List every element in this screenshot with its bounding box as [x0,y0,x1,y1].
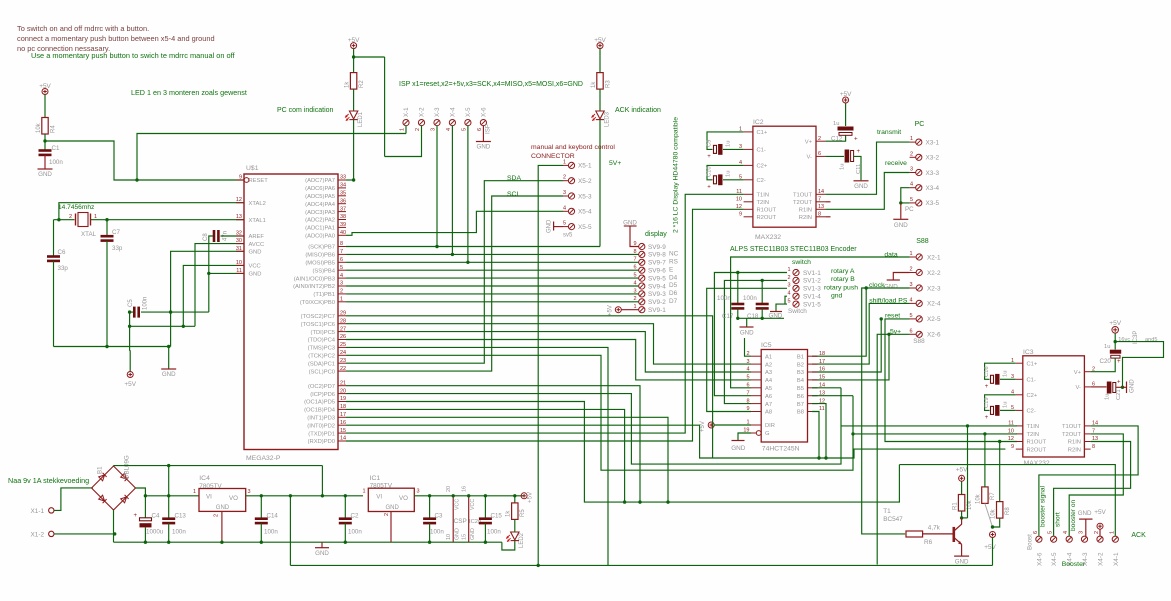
svg-text:GND: GND [731,445,746,452]
supply +5V (R7/R8) [990,532,996,538]
svg-text:+5V: +5V [1109,320,1122,327]
svg-text:GND: GND [854,183,868,190]
svg-text:2: 2 [415,128,421,131]
svg-text:X-1: X-1 [403,107,410,117]
junction XTAL1/C7 [105,218,108,221]
supply +5V (C12) [843,97,849,103]
capacitor C1 [39,151,52,155]
wire GND11 [209,272,244,274]
svg-text:39: 39 [340,222,346,228]
wire shift X2-4 to B2 [812,303,910,364]
pad SV1-4 [793,293,799,299]
svg-text:X4-6: X4-6 [1036,552,1043,566]
svg-text:X-3: X-3 [434,107,441,117]
junction GND11/C8 [207,272,210,275]
junction RESET branch [135,178,138,181]
IC IC3 MAX232 box [1023,356,1085,457]
pin 38 (ADC2)PA2 [338,219,346,221]
wire X4-6 booster signal [1039,426,1138,536]
svg-text:SV1-4: SV1-4 [803,294,821,301]
pin 16 (INT0)PD2 [338,424,346,426]
svg-text:12: 12 [236,197,242,203]
pin 4 (AIN1/OC0)PB3 [338,277,346,279]
capacitor C11 [825,155,844,157]
wire R8 bottom [993,518,1000,527]
svg-text:VO: VO [229,495,238,502]
IC2 pin 12 R1OUT [744,208,753,210]
svg-text:ACK: ACK [1131,532,1146,539]
wire +5v ISP riser [384,57,386,157]
pin 20 (ICP)PD6 [338,393,346,395]
svg-text:Switch: Switch [788,308,807,315]
svg-text:2: 2 [214,514,220,517]
svg-text:9: 9 [1011,444,1014,450]
IC3 pin 6 V- [1084,386,1090,388]
capacitor C7 [101,236,114,240]
IC2 pin 1 C1+ [744,131,753,133]
svg-text:6: 6 [1033,531,1039,534]
svg-text:38: 38 [340,214,346,220]
pad X2-4 [916,300,922,306]
svg-text:1u: 1u [1105,394,1111,400]
svg-text:GND: GND [955,558,969,565]
svg-text:ICSP: ICSP [452,518,467,525]
svg-text:C3: C3 [435,513,443,520]
svg-text:11: 11 [236,268,242,274]
svg-text:SV9-4: SV9-4 [648,283,666,290]
pad X1-1 [49,508,54,513]
svg-text:6: 6 [477,128,483,131]
svg-text:GND: GND [894,222,908,229]
svg-text:B3: B3 [797,370,804,376]
svg-text:V-: V- [1076,385,1082,391]
pad X5-5 [568,224,574,230]
svg-text:1u: 1u [840,164,846,170]
svg-text:X3-2: X3-2 [926,155,940,162]
wire AREF to C8 [221,235,245,237]
svg-text:R1OUT: R1OUT [757,208,777,214]
svg-text:14.7456mhz: 14.7456mhz [58,204,94,211]
svg-text:1u: 1u [726,171,732,177]
svg-text:connect a momentary push butto: connect a momentary push button between … [17,34,215,43]
capacitor C4 [144,496,146,518]
svg-text:+: + [133,513,137,519]
svg-text:15: 15 [340,428,346,434]
wire T2OUT stub [825,201,830,203]
svg-text:3: 3 [910,167,913,173]
svg-text:manual and keybord control: manual and keybord control [531,144,615,151]
wire IC1 GND [390,512,392,543]
svg-text:V+: V+ [1074,370,1082,376]
supply +5V (C20) [1112,327,1119,334]
pin 22 (SCL)PC0 [338,370,346,372]
svg-text:1: 1 [910,136,913,142]
svg-text:(TOSC1)PC6: (TOSC1)PC6 [301,322,335,328]
svg-text:B1: B1 [97,466,104,474]
svg-text:8: 8 [746,398,749,404]
wire PC3 net [346,347,608,565]
svg-text:A5: A5 [765,386,772,392]
svg-text:2: 2 [746,351,749,357]
ground (X-6) [482,125,484,141]
svg-text:VI: VI [376,494,382,501]
capacitor C17 [737,273,739,304]
pad X3-2 [916,154,922,160]
pad X-3 [434,120,440,126]
pad X2-6 [916,331,922,337]
svg-text:(AIN1/OC0)PB3: (AIN1/OC0)PB3 [294,276,335,282]
wire LED3 to PB7 (ACK) [599,120,601,247]
svg-text:SV1-1: SV1-1 [803,270,821,277]
svg-text:X5-1: X5-1 [578,163,592,170]
IC2 pin 4 C2+ [744,164,753,166]
wire VO rail [246,495,363,497]
svg-text:GND: GND [315,550,329,557]
svg-text:17: 17 [819,359,825,365]
svg-text:7805TV: 7805TV [370,483,393,490]
svg-text:5V+: 5V+ [609,160,621,167]
svg-text:(INT0)PD2: (INT0)PD2 [307,423,335,429]
svg-text:40: 40 [340,230,346,236]
svg-text:LED3: LED3 [604,111,610,127]
wire to GND symbol [168,347,170,369]
svg-text:+: + [707,185,711,191]
svg-text:31: 31 [236,246,242,252]
svg-text:X2-1: X2-1 [927,254,941,261]
svg-text:C1-: C1- [757,148,766,154]
svg-text:GND: GND [455,528,461,540]
svg-text:(ADC5)PA5: (ADC5)PA5 [305,194,335,200]
svg-text:1u: 1u [1104,344,1110,350]
supply +5V (R3) [597,43,603,49]
svg-text:(ADC2)PA2: (ADC2)PA2 [305,218,335,224]
ground (C21) rotated [1123,386,1127,388]
wire SV1-2 to A7 [724,280,787,403]
wire X-5 MOSI [467,125,469,262]
svg-text:B8: B8 [797,410,804,416]
svg-text:MAX232: MAX232 [1024,460,1050,467]
svg-text:6: 6 [818,151,821,157]
pin 34 (ADC6)PA6 [338,187,346,189]
pad X2-1 [916,254,922,260]
svg-text:20: 20 [446,486,452,492]
IC5 pin 4 A3 [751,371,761,373]
svg-text:100n: 100n [717,295,731,302]
svg-text:5: 5 [910,197,913,203]
svg-text:C16: C16 [984,366,990,377]
svg-text:5: 5 [787,299,790,305]
capacitor C2 [344,496,346,518]
pad SV9-6 [639,267,645,273]
svg-text:B6: B6 [797,394,804,400]
svg-text:4: 4 [446,128,452,131]
capacitor C18 [761,280,763,303]
svg-text:DBL09G: DBL09G [124,455,131,479]
svg-text:3: 3 [417,489,420,495]
svg-text:4: 4 [563,205,566,211]
svg-text:4: 4 [787,291,790,297]
svg-text:14: 14 [340,436,346,442]
wire B3 up to reset [812,319,881,372]
svg-text:C1-: C1- [1027,378,1036,384]
junction collector [960,516,963,519]
svg-text:R1OUT: R1OUT [1027,440,1047,446]
svg-text:C15: C15 [491,513,503,520]
svg-text:5: 5 [1048,531,1054,534]
IC IC4 7805STV box [199,489,246,512]
svg-text:2 *16 LC Display HD44780 compa: 2 *16 LC Display HD44780 compatible [673,117,680,233]
wire X5-4 button [346,211,563,235]
IC2 pin 11 T1IN [744,193,753,195]
pin 18 (OC1B)PD4 [338,408,346,410]
pin 7 (MISO)PB6 [338,253,346,255]
wire PC7 net [346,316,713,458]
LED LED1 [349,111,357,120]
svg-text:35: 35 [340,191,346,197]
svg-text:15: 15 [819,375,825,381]
IC2 pin 10 T2IN [744,201,753,203]
svg-text:X1-2: X1-2 [31,532,45,539]
svg-text:GND: GND [1129,379,1136,393]
wire +5V to bus [992,538,994,566]
svg-text:X-2: X-2 [419,107,426,117]
IC2 pin 5 C2- [744,179,753,181]
svg-text:R6: R6 [924,539,933,546]
svg-text:B2: B2 [797,362,804,368]
svg-text:18: 18 [819,351,825,357]
svg-text:D7: D7 [669,298,678,305]
resistor R2 [350,73,356,90]
svg-text:X1-1: X1-1 [31,508,45,515]
svg-text:VO: VO [399,495,408,502]
svg-text:T2OUT: T2OUT [793,200,812,206]
wire R2 to LED1 [353,89,355,111]
MCU U$1 MEGA32-P box [244,174,338,450]
pin 39 (ADC1)PA1 [338,226,346,228]
wire data X2-1 to A5 [731,257,910,388]
IC3 pin 9 R2OUT [1016,448,1023,450]
svg-text:(AIN0/INT2)PB2: (AIN0/INT2)PB2 [293,284,335,290]
svg-text:4: 4 [910,182,913,188]
wire IC1 VO rail [414,495,524,497]
svg-text:12: 12 [1008,436,1014,442]
svg-text:22: 22 [340,366,346,372]
wire PB2 to SV9-4 [346,285,639,287]
svg-text:VCC: VCC [455,499,461,510]
capacitor C10 [707,165,744,179]
svg-text:X-4: X-4 [449,107,456,117]
+5V bus short [129,351,132,372]
pin 15 (TXD)PD1 [338,432,346,434]
pin 25 (TMS)PC3 [338,346,346,348]
svg-text:2: 2 [340,289,343,295]
pad X5-4 [568,208,574,214]
svg-text:+: + [854,136,858,143]
wire C7 branch [106,220,108,236]
svg-text:1: 1 [340,297,343,303]
IC5 pin 9 A8 [751,411,761,413]
pin 11 GND [236,272,244,274]
gnd bus power area [114,541,502,543]
svg-text:T1: T1 [883,508,891,515]
svg-text:37: 37 [340,206,346,212]
pad X3-5 [916,200,922,206]
pin 19 (OC1A)PD5 [338,401,346,403]
IC3 pin 7 T2OUT [1084,433,1090,435]
svg-text:30: 30 [236,238,242,244]
svg-text:+5V: +5V [840,91,852,98]
IC5 pin 13 B6 [808,395,818,397]
svg-text:B4: B4 [797,378,805,384]
pad SV1-2 [793,277,799,283]
pad X5-3 [568,193,574,199]
pin 26 (TDO)PC4 [338,339,346,341]
svg-text:SV9-2: SV9-2 [648,299,666,306]
svg-text:36: 36 [340,198,346,204]
pin 5 (SS)PB4 [338,269,346,271]
wire X-2 +5v net [385,125,422,156]
IC5 pin 11 B8 [808,411,818,413]
pad X2-5 [916,316,922,322]
IC2 pin 13 R1IN [816,208,825,210]
svg-text:6: 6 [340,257,343,263]
svg-text:C1+: C1+ [1027,361,1038,367]
IC3 pin 14 T1OUT [1084,425,1090,427]
svg-text:(TDO)PC4: (TDO)PC4 [308,338,336,344]
wire R5 to LED2 [514,519,516,532]
svg-text:(ADC3)PA3: (ADC3)PA3 [305,210,335,216]
svg-text:A4: A4 [765,378,773,384]
wire PC4 to A4 [346,340,751,380]
svg-text:NC: NC [669,251,679,258]
svg-text:74HCT245N: 74HCT245N [762,446,800,453]
svg-text:transmit: transmit [877,129,901,136]
pad X-1 [403,120,409,126]
svg-text:16: 16 [340,420,346,426]
wire +9 bus drop [321,466,323,496]
wire RESET net [45,141,244,180]
svg-text:33p: 33p [112,245,123,252]
svg-text:(T0/XCK)PB0: (T0/XCK)PB0 [300,300,335,306]
LED LED2 [511,532,519,541]
svg-text:VCC: VCC [470,499,476,510]
pad X3-4 [916,185,922,191]
wire R7 top to T2IN [984,434,986,487]
svg-text:3: 3 [563,190,566,196]
svg-text:15: 15 [462,534,468,540]
wire PB1 to SV9-3 [346,293,639,295]
svg-text:B7: B7 [797,402,804,408]
svg-text:D4: D4 [669,274,678,281]
wire R4 to C1 [44,134,46,150]
svg-text:GND: GND [477,144,491,151]
svg-text:A7: A7 [765,402,772,408]
pin 13 XTAL1 [236,219,244,221]
svg-text:7: 7 [340,249,343,255]
svg-text:X2-6: X2-6 [927,332,941,339]
wire GND to IC5 A1 [745,338,752,356]
svg-text:2: 2 [563,175,566,181]
wire PC2 net [346,355,853,470]
svg-text:(SCL)PC0: (SCL)PC0 [309,369,335,375]
svg-text:E: E [669,266,673,273]
wire B4 up to 5v+ [812,334,889,380]
wire X-3 SCK [436,125,438,246]
wire h312 net [141,311,209,313]
svg-text:IC5: IC5 [761,342,772,349]
svg-text:T1OUT: T1OUT [1062,424,1081,430]
svg-text:rotary B: rotary B [831,276,855,283]
wire PB7 ACK row [346,246,600,248]
svg-text:V-: V- [807,155,813,161]
pin 6 (MOSI)PB5 [338,261,346,263]
connector ICSP pin VCC/GND 1 [452,496,454,542]
IC3 pin 13 R1IN [1084,441,1090,443]
IC3 pin 4 C2+ [1016,394,1023,396]
svg-text:C13: C13 [175,513,187,520]
wire X5-1 +5V [538,165,563,565]
supply +5V (SV9-1) [615,307,621,313]
crystal XTAL [78,213,88,227]
svg-text:1k: 1k [591,81,597,88]
wire PD3 net [346,417,668,502]
pin 8 (SCK)PB7 [338,246,346,248]
svg-text:R1IN: R1IN [1068,440,1081,446]
svg-text:28: 28 [340,318,346,324]
capacitor C9 [707,132,744,150]
svg-text:8: 8 [1092,444,1095,450]
wire X3-4/X3-5 gnd [901,188,910,203]
svg-text:1: 1 [1109,531,1115,534]
wire PD4 net [346,409,625,502]
svg-text:29: 29 [340,311,346,317]
resistor R3 [597,73,603,90]
svg-text:switch: switch [792,259,811,266]
svg-text:SCL: SCL [507,191,520,198]
wire +5V distribution drop [289,496,291,566]
IC5 pin 17 B2 [808,363,818,365]
svg-text:VI: VI [206,494,212,501]
svg-text:R2OUT: R2OUT [1027,447,1047,453]
IC5 pin 15 B4 [808,379,818,381]
wire X1-2 to gnd [54,533,114,535]
IC3 pin 10 T2IN [1016,433,1023,435]
resistor R8 [997,502,1003,518]
pad X3-3 [916,169,922,175]
svg-text:C20: C20 [1100,358,1112,365]
svg-text:IC2: IC2 [753,119,764,126]
svg-text:C1+: C1+ [757,130,768,136]
svg-text:gnd: gnd [831,293,843,300]
svg-text:IC3: IC3 [1023,349,1034,356]
wire R3 to LED3 [599,89,601,111]
IC5 pin 8 A7 [751,403,761,405]
wire ACK bus to X4-1 [899,465,1115,536]
svg-text:1u: 1u [726,141,732,147]
wire h326 +5V net [130,325,195,327]
supply +5V (R2) [351,43,357,49]
pad SV9-5 [639,275,645,281]
pin 29 (TOSC2)PC7 [338,315,346,317]
pin 1 (T0/XCK)PB0 [338,301,346,303]
svg-text:rotary A: rotary A [831,268,855,275]
svg-text:1u: 1u [1003,371,1009,377]
svg-text:6: 6 [746,383,749,389]
svg-text:SV9-5: SV9-5 [648,275,666,282]
svg-text:RS: RS [669,259,678,266]
svg-text:19: 19 [340,396,346,402]
capacitor C21 [1091,386,1107,388]
